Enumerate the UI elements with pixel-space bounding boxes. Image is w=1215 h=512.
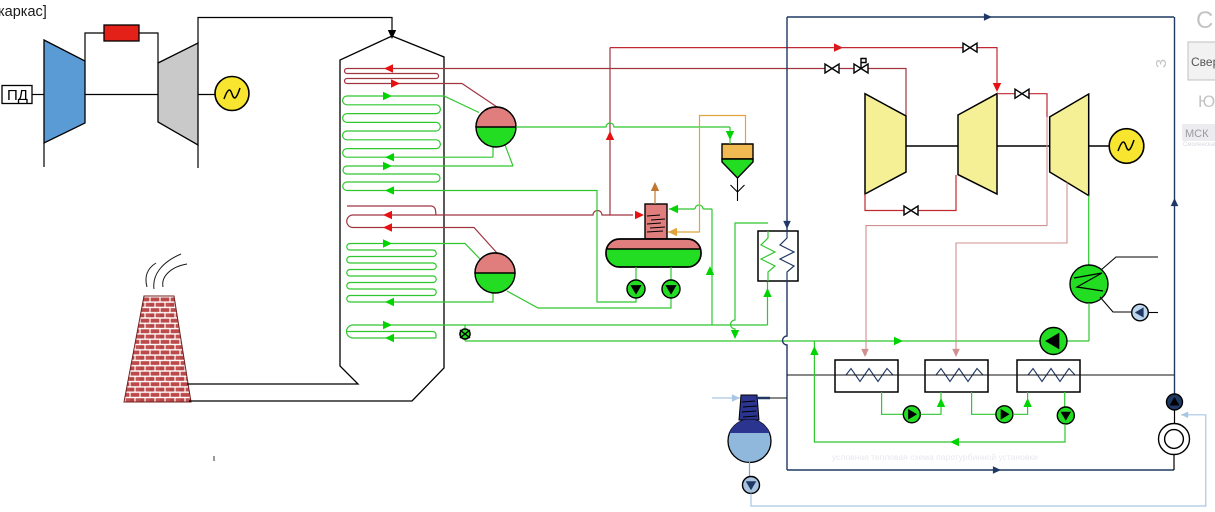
valve 2 with actuator [854, 64, 868, 73]
valve on preheater bypass [464, 325, 466, 341]
arrow economizer top [383, 162, 392, 170]
pump P1 feed [635, 267, 637, 280]
wire: HP drum steam out (green right) [516, 123, 730, 127]
wire: network supply out [1101, 257, 1158, 270]
heater ПНД-1 [835, 360, 898, 392]
svg-text:С: С [1196, 7, 1213, 34]
wire: compressor to combustor [85, 33, 104, 61]
wire: HP drum downcomer [505, 145, 513, 166]
wire: cooling loop bottom [787, 469, 1174, 471]
wire: combustor to turbine [139, 33, 158, 63]
valve on HP exhaust [904, 206, 918, 215]
wire: pump to tower circle [1174, 410, 1176, 424]
HRSG tower outline [187, 36, 444, 401]
arrow on condensate line [894, 337, 903, 345]
condenser neck [739, 395, 759, 420]
shaft compressor-turbine [85, 94, 158, 96]
svg-text:З: З [1153, 59, 1170, 68]
arrow LP evap top [383, 239, 392, 247]
turbine LP cylinder [1050, 94, 1089, 196]
arrow preheater top [383, 321, 392, 329]
UI button Свер [1188, 42, 1215, 80]
pump: drain pump 1 [903, 406, 920, 423]
arrow orange into deaerator [668, 228, 677, 236]
arrow up on riser [706, 266, 714, 275]
wire: preheater riser to gas cooler [767, 282, 769, 325]
arrow up into heater3 [1023, 398, 1031, 407]
gas turbine GT (gray) [158, 43, 198, 145]
coil: LP evaporator bank [347, 244, 480, 303]
arrow: steam down into IP turbine [993, 83, 1001, 92]
wire: LP bypass to heater 1 (pale) [866, 117, 1047, 355]
network heater circle [1070, 265, 1108, 303]
shaft IP-LP [997, 145, 1050, 147]
UI label МСК [1182, 124, 1215, 141]
coil: condensate preheater [347, 325, 768, 338]
wire: cooling loop left upper [786, 17, 788, 231]
flash tank [722, 144, 753, 159]
arrow circ water [1181, 411, 1188, 418]
coil: HP economizer bank [343, 166, 636, 302]
wire: LP extraction to heater 2 [956, 183, 1067, 356]
pump: condensate extraction pump [743, 477, 760, 494]
steam turbine generator G2 [1109, 129, 1144, 164]
wire: IP to LP steam [997, 94, 1047, 117]
combustor KC (red) [104, 25, 139, 41]
heater ПНД-3 [1017, 360, 1080, 392]
pump: circulating water pump [1167, 394, 1183, 410]
pump: drain pump 2 [996, 406, 1013, 423]
shaft LP-generator [1089, 145, 1109, 147]
wire: drain return line [814, 341, 1065, 442]
arrow cooling down into cooler [783, 221, 791, 229]
svg-text:МСК: МСК [1185, 128, 1209, 140]
pump P2 feed [670, 267, 672, 280]
svg-text:Ю: Ю [1198, 92, 1215, 111]
GT generator G1 [215, 77, 249, 111]
wire: condenser to pump [749, 462, 751, 477]
arrow into heater 2 [952, 349, 960, 357]
gas cooler navy zigzag [780, 231, 794, 281]
wire: heater2 drain to pump [972, 392, 996, 414]
coil: IP superheater (dark red) [347, 206, 610, 253]
arrow cooling bottom [993, 466, 1001, 474]
drum HP (Б1) [476, 107, 516, 147]
wire: LP exhaust to network heater [1088, 196, 1090, 265]
deaerator tank [606, 239, 701, 267]
wire: flash drain to condensate line [731, 223, 769, 330]
smoke curves [146, 254, 187, 289]
arrow on evaporator bottom line [385, 153, 394, 161]
wire: network pump out [1149, 312, 1159, 314]
gas cooler box [758, 231, 798, 281]
condenser bowl [728, 420, 771, 463]
wire: green into flash tank [729, 127, 731, 144]
deaerator column [645, 204, 667, 239]
wire: GT exhaust duct to HRSG [198, 18, 392, 44]
condenser outlet stub [757, 397, 770, 400]
arrow: flue gas into HRSG [388, 30, 396, 39]
coil: HP superheater (dark red) [345, 69, 907, 117]
wire: green into deaerator [669, 208, 712, 210]
arrow cooling right up [1171, 198, 1179, 206]
wire: ПД to compressor shaft [32, 94, 44, 96]
wire: heater1 drain to pump [882, 392, 903, 414]
condenser inlet stub [712, 397, 741, 399]
arrow flash drain down [731, 330, 739, 339]
arrow drain return up [810, 346, 818, 355]
deaerator vent arrow (brown) [654, 190, 656, 204]
arrow on reheater bottom line [383, 223, 392, 231]
wire: pump1 to heater2 [920, 392, 941, 414]
wire: LP drum bottom connection [433, 293, 493, 302]
shaft turbine-generator [198, 94, 215, 96]
pump: network pump [1132, 304, 1149, 321]
wire: cooling loop right [1174, 17, 1176, 394]
arrow on drain return [950, 438, 959, 446]
wire: HP exhaust to IP [865, 175, 956, 211]
wire: condensate riser to deaerator [711, 209, 713, 325]
compressor K (blue) [44, 40, 85, 143]
arrow up on deaerator steam line [606, 131, 614, 140]
arrow LP evap bottom [385, 298, 394, 306]
turbine HP cylinder [865, 94, 906, 194]
stray tick [213, 456, 215, 461]
arrow on superheater top line [384, 64, 393, 72]
svg-text:ПД: ПД [7, 87, 28, 104]
wire: heater through line [787, 374, 1174, 376]
gas cooler green zigzag [761, 231, 775, 281]
valve on upper steam line [963, 43, 977, 52]
wire: cooling loop top [787, 16, 1174, 18]
valve 1 on lower steam line [825, 64, 839, 73]
node ПД box [2, 86, 32, 104]
svg-text:Свер: Свер [1191, 55, 1215, 69]
arrow into flash tank [726, 131, 734, 140]
wire: cooling loop left lower [783, 281, 788, 470]
coil: HP evaporator bank [343, 96, 493, 157]
arrow into heater 1 [861, 349, 869, 357]
wire: HP steam upper line [610, 48, 997, 88]
cooling tower (double circle) [1159, 424, 1190, 455]
wire: steam line to deaerator [610, 48, 633, 215]
svg-text:Смоленская: Смоленская [1183, 142, 1215, 148]
svg-text:условная тепловая схема пароту: условная тепловая схема паротурбинной ус… [832, 452, 1038, 462]
drain Y symbol [731, 178, 745, 201]
wire: tower circle to bottom [1173, 455, 1175, 471]
arrow on reheater top line [383, 211, 392, 219]
wire: orange into deaerator [668, 116, 746, 233]
wire: network heater drain [1088, 303, 1090, 341]
heater ПНД-2 [925, 360, 988, 392]
svg-text:каркас]: каркас] [0, 4, 47, 20]
arrow into deaerator column [635, 211, 644, 219]
arrow up into heater2 [937, 398, 945, 407]
pump: drain pump 3 [1057, 407, 1074, 424]
arrow on evaporator top line [383, 92, 392, 100]
arrow up into gas cooler [763, 288, 771, 297]
wire: circulating water bottom [751, 415, 1206, 506]
turbine IP cylinder [958, 94, 997, 194]
arrow economizer bottom [385, 186, 394, 194]
arrow cooling top [984, 13, 992, 21]
pump: main condensate pump [1040, 328, 1067, 355]
valve IP-LP [1015, 89, 1029, 98]
wire: network return in [1100, 297, 1131, 312]
arrow on superheater bottom line [391, 79, 400, 87]
arrow preheater bottom [385, 334, 394, 342]
wire: heater3 drain down [1064, 392, 1066, 407]
drum LP (Б2) [475, 253, 515, 293]
arrow green into deaerator [669, 205, 678, 213]
arrow: HP steam to turbine [834, 43, 843, 51]
shaft HP-IP [906, 145, 958, 147]
wire: LP drum feed from P2 [507, 291, 671, 308]
wire: main condensate line [465, 340, 1040, 342]
wire: pump2 to heater3 [1013, 392, 1028, 414]
